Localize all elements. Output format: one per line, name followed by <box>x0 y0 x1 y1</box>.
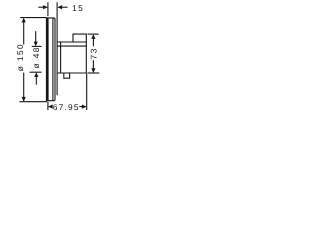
svg-text:67.95: 67.95 <box>53 102 80 112</box>
dimension 73: dimension line lower segment <box>92 60 94 71</box>
dimension ø48: top extension line <box>32 45 42 47</box>
dimension 67.95: right extension line below knob <box>86 74 88 110</box>
handle knob: inner back edge <box>60 42 62 73</box>
dimension 73: top arrowhead <box>91 34 95 39</box>
dimension ø48: bottom extension line <box>30 71 42 73</box>
dimension 73: bottom arrowhead <box>91 68 95 73</box>
escutcheon plate: front rim / sleeve line (merges with 15-dim extension above) <box>56 2 58 95</box>
dimension ø150: bottom extension line <box>20 101 48 103</box>
escutcheon plate: outline (top edge, front face, bottom edge) <box>46 18 55 101</box>
dimension 67.95: line segment between text and right arrow <box>79 106 82 108</box>
dimension ø150: bottom arrowhead <box>22 97 26 102</box>
dimension 73: top extension line <box>88 33 99 35</box>
dimension 73: dimension line upper segment <box>92 36 94 47</box>
dimension 67.95: right arrowhead <box>82 105 87 109</box>
dimension 67.95: left arrowhead <box>48 105 53 109</box>
svg-text:73: 73 <box>88 47 98 59</box>
dimension ø150: vertical dimension line upper segment <box>23 19 25 45</box>
dimension 67.95: left extension line below plate <box>47 102 49 110</box>
handle knob: inner top edge <box>57 45 86 47</box>
escutcheon plate: inner front line <box>52 18 54 100</box>
dimension 15: left segment with right-pointing arrow <box>38 5 48 9</box>
dimension 15: right segment with left-pointing arrow <box>57 5 67 9</box>
small tab below knob <box>64 73 70 78</box>
svg-text:ø 150: ø 150 <box>15 43 25 71</box>
dimension 15: extension line left (wall plane) <box>47 2 49 16</box>
select button on top of knob <box>73 34 86 42</box>
dimension 73: bottom extension line <box>88 72 100 74</box>
dimension ø150: top extension line <box>20 17 46 19</box>
svg-text:ø 48: ø 48 <box>31 46 41 68</box>
handle knob: outer silhouette <box>57 42 86 73</box>
dimension ø150: top arrowhead <box>22 18 26 23</box>
escutcheon plate: thick back (wall) edge <box>46 17 49 101</box>
dimension ø48: bottom leader line with up arrowhead <box>34 72 38 84</box>
svg-text:15: 15 <box>72 3 84 13</box>
dimension ø48: top leader line with down arrowhead <box>34 31 38 46</box>
dimension ø150: vertical dimension line lower segment <box>23 73 25 101</box>
